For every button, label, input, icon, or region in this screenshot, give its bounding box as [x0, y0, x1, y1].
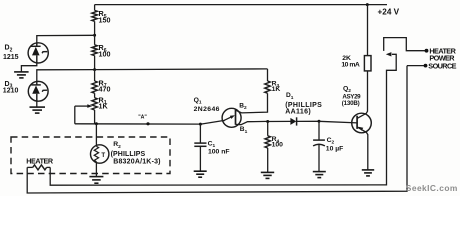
node A dot	[146, 122, 149, 125]
svg-text:SeekIC.com: SeekIC.com	[406, 183, 458, 193]
terminal dot HEATER	[425, 49, 429, 53]
svg-text:150: 150	[99, 16, 111, 25]
svg-text:10 µF: 10 µF	[326, 146, 344, 153]
transistor Q2	[352, 113, 372, 133]
ground C2	[313, 171, 326, 173]
connector socket bracket	[384, 38, 427, 51]
resistor R6	[94, 35, 96, 45]
heater element	[33, 165, 47, 170]
ground C1	[194, 170, 207, 172]
svg-text:B8320A/1K-3): B8320A/1K-3)	[113, 159, 161, 166]
junction B1/R4/D1	[266, 120, 269, 123]
R1 wiper arrow	[75, 105, 89, 107]
svg-text:1K: 1K	[272, 86, 281, 93]
diode D1	[290, 118, 296, 125]
junction top rail / 2K branch	[366, 3, 369, 6]
enclosure oven dashed box	[11, 137, 170, 174]
svg-text:SOURCE: SOURCE	[428, 62, 456, 71]
svg-text:2N2646: 2N2646	[194, 106, 220, 113]
svg-text:100 nF: 100 nF	[208, 148, 230, 155]
wire rail to R3	[95, 68, 268, 71]
capacitor C1	[199, 124, 201, 143]
svg-text:(130B): (130B)	[342, 100, 360, 107]
potentiometer R1	[92, 98, 97, 110]
svg-text:10 mA: 10 mA	[341, 61, 359, 68]
svg-text:+24 V: +24 V	[378, 7, 400, 16]
svg-text:(PHILLIPS: (PHILLIPS	[111, 151, 146, 158]
svg-text:1215: 1215	[3, 54, 19, 61]
wire SOURCE terminal stub	[407, 65, 426, 67]
svg-text:100: 100	[272, 142, 284, 149]
junction R1/R2	[95, 122, 98, 125]
ground R4	[261, 171, 274, 173]
junction R5/R6/D2	[93, 34, 96, 37]
svg-text:HEATER: HEATER	[26, 156, 54, 165]
unijunction transistor Q1	[222, 108, 241, 127]
terminal dot SOURCE	[424, 64, 428, 68]
resistor 2K 10mA	[364, 56, 371, 71]
capacitor C2	[318, 121, 320, 140]
resistor R7	[94, 70, 96, 81]
junction D1/C2/Q2	[318, 120, 321, 123]
wire D3 to ground	[36, 101, 38, 107]
wire top supply rail	[95, 4, 387, 6]
junction C1	[199, 123, 202, 126]
wire B2 to R3	[236, 93, 268, 113]
diode D3	[28, 81, 48, 101]
connector plug arrow	[386, 52, 392, 56]
wire D2 top	[37, 35, 95, 43]
svg-text:1210: 1210	[3, 87, 19, 94]
wire node A rail	[75, 121, 223, 125]
ground D2	[14, 71, 29, 73]
svg-text:"A": "A"	[138, 114, 147, 120]
wire 2K branch vertical	[367, 5, 369, 56]
wire D3 top	[37, 70, 95, 82]
wire B1	[236, 121, 268, 124]
wire R2 to ground	[95, 162, 97, 177]
wire Q2 base	[319, 121, 357, 123]
wire D2 to ground	[21, 63, 36, 72]
junction R6/R7/D3 rail	[93, 68, 96, 71]
wire R1 wiper to node A rail	[74, 106, 76, 124]
ground Q2	[362, 169, 374, 171]
resistor R5	[94, 5, 96, 11]
ground R2	[89, 176, 103, 178]
wire heater left / lower loop to SOURCE terminal	[27, 66, 407, 193]
resistor R4	[267, 122, 269, 136]
thermistor R2	[91, 145, 109, 163]
svg-text:AA116): AA116)	[285, 109, 311, 116]
ground D3	[30, 106, 46, 108]
svg-text:470: 470	[99, 85, 111, 94]
svg-text:T: T	[101, 152, 105, 159]
svg-text:1K: 1K	[99, 102, 109, 111]
resistor R3	[267, 69, 269, 81]
wire R2 top	[95, 124, 97, 146]
svg-text:100: 100	[99, 49, 111, 58]
Q2 collector wire	[357, 71, 367, 119]
wire heater right / upper loop to plug	[50, 54, 396, 185]
Q2 emitter wire	[357, 127, 368, 169]
diode D2	[28, 43, 48, 63]
